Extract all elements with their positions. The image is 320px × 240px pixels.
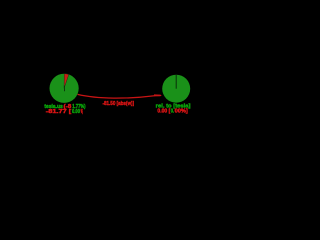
pie start line <box>175 75 177 89</box>
arrowhead <box>154 94 162 96</box>
svg-text:-81.77 [0.00%]: -81.77 [0.00%] <box>46 109 83 115</box>
red wedge <box>64 74 69 89</box>
pie boundary line below wedge apex <box>63 86 65 92</box>
node tesla.us (pie, green with red wedge) <box>50 74 79 103</box>
node rel (pie, full green) <box>162 75 190 103</box>
svg-text:0.00 [0.00%]: 0.00 [0.00%] <box>157 108 188 114</box>
svg-text:-81.50 [abs(w)]: -81.50 [abs(w)] <box>103 101 135 107</box>
edge tesla.us -> rel node (red curve) <box>78 94 162 98</box>
